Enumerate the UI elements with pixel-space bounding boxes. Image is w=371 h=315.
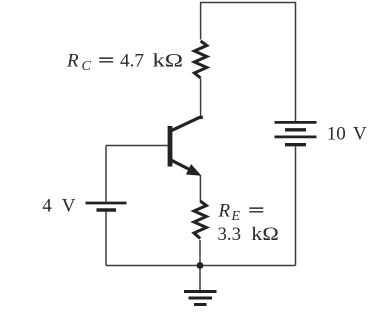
transistor Q1 base bar <box>168 126 173 167</box>
svg-text:R: R <box>218 201 231 222</box>
battery V2 (10 V) plate 4 short <box>285 143 306 146</box>
svg-text:3.3: 3.3 <box>218 224 242 245</box>
battery V1 (4 V) short plate <box>97 208 117 211</box>
wire: left rail from base node down to 4V battery <box>105 146 107 202</box>
svg-text:4.7: 4.7 <box>120 51 144 72</box>
battery V2 (10 V) plate 3 long <box>275 136 317 139</box>
transistor Q1 emitter lead <box>171 160 193 171</box>
svg-text:kΩ: kΩ <box>251 224 278 245</box>
wire: left rail from 4V battery to bottom rail <box>105 211 107 266</box>
transistor Q1 emitter arrowhead <box>186 164 202 176</box>
svg-text:4: 4 <box>42 196 52 217</box>
svg-text:C: C <box>82 59 92 74</box>
battery V2 (10 V) plate 2 short <box>285 128 306 131</box>
battery V2 label <box>327 124 367 145</box>
wire: RC bottom to collector <box>200 79 202 118</box>
resistor RC (4.7 k ohm) zigzag <box>194 41 206 78</box>
ground symbol <box>184 292 217 305</box>
svg-text:10: 10 <box>327 124 346 145</box>
battery V1 label <box>42 196 75 217</box>
wire: right rail below 10V battery to bottom rail <box>295 147 297 266</box>
wire: RE bottom to bottom rail <box>199 240 201 266</box>
wire: emitter to RE top <box>199 176 201 202</box>
wire: base lead <box>106 145 168 147</box>
wire: bottom rail <box>106 265 296 267</box>
resistor RE value label <box>218 201 279 246</box>
resistor RC value label <box>66 51 183 75</box>
transistor Q1 collector lead <box>171 117 203 131</box>
resistor RE (3.3 k ohm) zigzag <box>194 201 206 239</box>
svg-text:E: E <box>231 209 241 224</box>
svg-text:R: R <box>66 51 79 72</box>
svg-text:V: V <box>353 124 367 145</box>
wire: ground stem <box>199 266 201 292</box>
battery V2 (10 V) plate 1 long <box>275 121 317 124</box>
wire: top rail from RC top to right rail, down to 10V battery <box>201 3 296 122</box>
battery V1 (4 V) long plate <box>86 202 127 205</box>
svg-text:V: V <box>62 196 76 217</box>
node: emitter junction dot <box>197 262 204 269</box>
svg-text:kΩ: kΩ <box>153 51 184 72</box>
